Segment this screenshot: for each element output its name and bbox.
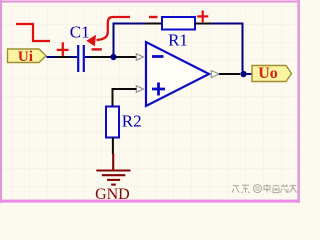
resistor R2 [106,107,119,138]
wire op-amp output to node [219,73,252,75]
feedback wire up and across [114,24,163,58]
wire non-inverting input to R2 [113,89,137,107]
op-amp output pin arrow [211,71,219,78]
pin arrow into non-inverting input [136,86,143,93]
port Ui [8,48,47,65]
wire Ui to C1 [47,56,78,58]
pin arrow into inverting input [136,54,143,61]
resistor R1 [162,17,195,30]
capacitor C1 [78,45,84,72]
svg-text:Ui: Ui [18,48,33,65]
svg-text:R2: R2 [122,112,142,131]
ground GND [96,154,130,185]
svg-text:R1: R1 [168,31,188,50]
svg-text:Uo: Uo [258,65,278,82]
svg-text:C1: C1 [70,23,90,42]
watermark [232,185,297,194]
op-amp U1 [146,42,209,106]
wire R1 to output node [195,24,243,72]
output junction node [240,71,246,77]
sheet background [0,0,300,203]
junction node at C1/R1 [110,54,116,60]
annotation: minus polarity at C1 right [92,48,102,50]
wire R2 to ground [112,138,114,155]
annotation: plus polarity right of R1 [197,11,208,23]
pink frame [0,0,300,203]
wire C1 to inverting input [85,56,137,58]
port Uo [252,65,292,82]
annotation: discharge arrow over C1 [86,17,130,46]
annotation: plus polarity at C1 left [57,42,69,56]
annotation: input step waveform [16,24,50,41]
annotation: minus polarity left of R1 [149,16,158,18]
